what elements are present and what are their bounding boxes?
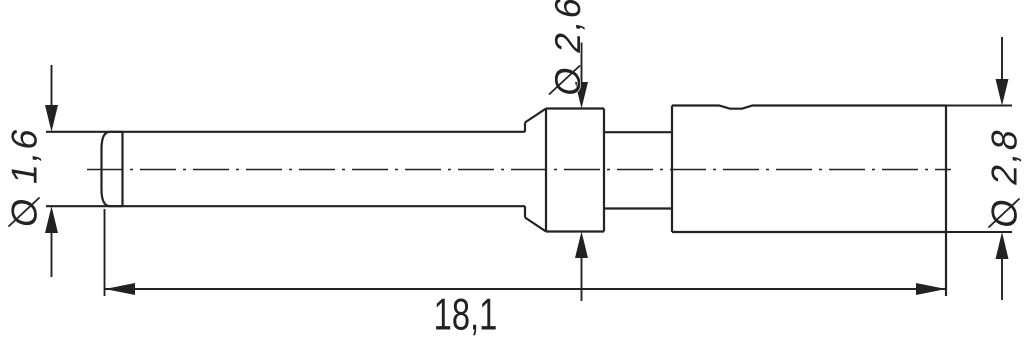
dia 1,6 dimension line lower xyxy=(51,231,53,277)
dia 2,6 leader lower xyxy=(581,256,583,301)
dia 1,6 dimension line upper xyxy=(51,65,53,107)
body right edge extended down as extension line xyxy=(945,106,947,297)
centerline (dash-dot axis) xyxy=(87,169,951,171)
collar cone bottom slant xyxy=(525,218,546,232)
svg-text:O 2,6: O 2,6 xyxy=(547,0,588,99)
collar right edge xyxy=(603,109,605,232)
svg-text:O 2,8: O 2,8 xyxy=(984,124,1025,231)
body top edge with crimp notch xyxy=(672,106,946,109)
neck top edge xyxy=(604,131,672,133)
arrow up to pin bottom (dia 1,6) xyxy=(45,206,58,233)
arrow down to body top (dia 2,8) xyxy=(996,79,1009,106)
collar top edge xyxy=(546,107,604,109)
svg-text:18,1: 18,1 xyxy=(434,291,498,340)
dia 2,6 leader upper xyxy=(581,43,583,85)
pin dome (rounded left cap) xyxy=(102,132,123,206)
body left edge xyxy=(671,106,673,233)
dia slash extension on 2,8 label xyxy=(989,199,1019,227)
pin bottom edge with left extension xyxy=(46,205,525,207)
body bottom edge xyxy=(672,231,946,233)
18,1 dimension line xyxy=(105,288,946,290)
arrow up to collar bottom (dia 2,6) xyxy=(575,232,588,259)
arrow down to collar top (dia 2,6) xyxy=(575,82,588,109)
dia 2,8 extension line bottom xyxy=(946,231,1012,233)
dia 2,8 extension line top xyxy=(946,105,1012,107)
arrow down to pin top (dia 1,6) xyxy=(45,105,58,132)
step at rod end, top xyxy=(524,123,526,132)
collar cone/cylinder boundary xyxy=(545,109,547,232)
arrow up to body bottom (dia 2,8) xyxy=(996,232,1009,259)
step at rod end, bottom xyxy=(524,206,526,217)
svg-text:O 1,6: O 1,6 xyxy=(4,123,45,230)
neck bottom edge xyxy=(604,207,672,209)
pin cap line xyxy=(121,132,123,206)
dia 2,8 leader lower xyxy=(1001,257,1003,300)
dia slash extension on 2,6 label xyxy=(550,66,580,94)
dia slash extension on 1,6 label xyxy=(9,198,39,226)
arrow right on 18,1 dimension xyxy=(916,283,946,295)
18,1 extension line left xyxy=(104,209,106,296)
collar bottom edge xyxy=(546,230,604,232)
arrow left on 18,1 dimension xyxy=(105,283,135,295)
pin top edge with left extension xyxy=(46,131,525,133)
collar cone top slant xyxy=(525,109,546,123)
dia 2,8 leader upper xyxy=(1001,37,1003,81)
